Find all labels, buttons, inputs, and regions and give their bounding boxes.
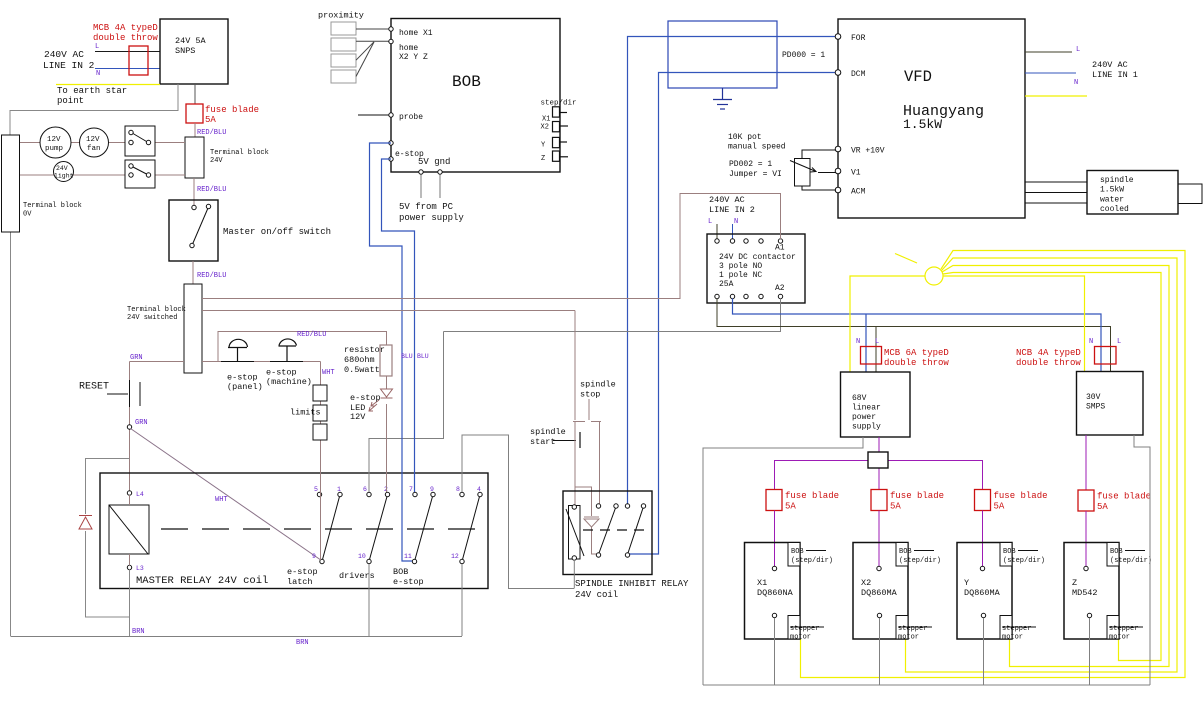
wire 24V switched to spindle stop [202,310,575,312]
wire terminal block 24V to master switch [193,178,195,207]
svg-text:5A: 5A [1097,502,1108,512]
dashed relay link line [161,528,475,530]
svg-text:Jumper = VI: Jumper = VI [729,170,782,179]
svg-text:1 pole NC: 1 pole NC [719,271,762,280]
pin home X1 [389,27,433,38]
limit switch 2 [313,405,327,421]
fuse blade 5A (X2) [871,490,944,512]
svg-text:N: N [96,70,100,78]
svg-text:7: 7 [409,486,413,493]
svg-text:1.5kW: 1.5kW [1100,186,1124,195]
wire VFD to spindle V [1025,192,1087,194]
svg-text:VR +10V: VR +10V [851,147,885,156]
svg-text:pump: pump [45,145,63,153]
svg-text:RED/BLU: RED/BLU [197,186,226,194]
contact arm (inhibit 1) [599,508,616,553]
svg-text:L: L [708,218,712,226]
pin 4 [477,486,482,497]
svg-text:fuse blade: fuse blade [205,105,259,115]
switch RESET pushbutton [107,362,140,408]
svg-text:spindle: spindle [1100,176,1134,185]
svg-text:L4: L4 [136,491,144,498]
load 24V light [54,162,74,182]
terminal block 24V switched [127,284,202,373]
svg-text:5A: 5A [785,502,796,512]
wire N line-in-2 [95,68,160,70]
limit switch 1 [313,385,327,401]
svg-text:WHT: WHT [215,496,228,504]
wire BOB e-stop2 (blue) to relay pin 7 [382,159,415,492]
svg-text:SNPS: SNPS [175,46,195,56]
label NCB 4A typeD double throw [1016,348,1081,368]
driver X2 DQ860MA [853,543,941,642]
svg-text:(step/dir): (step/dir) [1003,557,1045,565]
svg-text:(machine): (machine) [266,377,312,387]
wire stop button to inhibit relay pin [599,422,601,504]
breaker MCB 6A (red box) [861,347,882,365]
pin ACM [835,187,865,196]
svg-text:L: L [875,338,879,346]
svg-text:BRN: BRN [132,628,145,636]
wire resistor to LED [386,376,388,389]
driver Z MD542 [1064,543,1152,642]
svg-text:motor: motor [790,634,811,642]
wire pin8 to spindle inhibit coil [462,435,574,589]
svg-text:RED/BLU: RED/BLU [197,129,226,137]
spindle shaft stub [1178,184,1202,204]
svg-text:SPINDLE INHIBIT RELAY: SPINDLE INHIBIT RELAY [575,579,689,589]
wire stop button to inhibit coil [574,422,576,505]
svg-text:Master on/off switch: Master on/off switch [223,227,331,237]
potentiometer 10K [790,150,836,190]
svg-text:0.5watt: 0.5watt [344,365,380,375]
label 240V AC LINE IN 2 [43,49,95,71]
svg-text:A1: A1 [775,244,785,253]
inhibit relay top pins [596,504,645,508]
label PD002 = 1 Jumper = VI [729,160,782,179]
board BOB (breakout board) [391,19,560,173]
svg-text:power: power [852,413,876,422]
svg-text:9: 9 [430,486,434,493]
pin L3 [127,565,144,572]
svg-text:12V: 12V [350,412,366,422]
pin e-stop 1 [389,141,424,159]
svg-text:fuse blade: fuse blade [994,491,1048,501]
contact arm 9-1 [323,497,340,560]
svg-text:10K pot: 10K pot [728,133,762,142]
svg-text:1.5kW: 1.5kW [903,117,942,132]
svg-text:BOB: BOB [393,567,408,577]
motor spindle 1.5kW water cooled [1087,171,1178,215]
wire L4 to coil [129,495,131,505]
contactor 24V DC (box) [707,234,805,303]
fuse blade 5A (Z) [1078,490,1151,512]
label To earth star point [57,86,127,106]
svg-text:X2 Y Z: X2 Y Z [399,53,428,62]
wire 5V stub [420,175,422,199]
coil pins [572,505,576,509]
wire X1 driver 0V return [774,618,776,685]
svg-text:12V: 12V [47,136,61,144]
svg-text:240V AC: 240V AC [1092,60,1128,70]
svg-text:e-stop: e-stop [287,567,318,577]
svg-text:BOB: BOB [1003,548,1016,556]
svg-text:680ohm: 680ohm [344,355,375,365]
svg-text:5A: 5A [890,502,901,512]
svg-text:Y: Y [964,578,969,588]
svg-text:24V DC contactor: 24V DC contactor [719,253,796,262]
svg-text:proximity: proximity [318,11,364,21]
svg-text:Z: Z [1072,578,1077,588]
wire L3 to BRN bus [129,570,131,637]
wire purple distribution bus [775,435,1087,490]
svg-text:stepper: stepper [1002,625,1031,633]
svg-text:e-stop: e-stop [350,393,381,403]
svg-text:L: L [1076,46,1080,54]
wire SNPS 0V to left rail [10,84,178,135]
earth ray (detached) [895,254,917,264]
svg-text:NCB 4A typeD: NCB 4A typeD [1016,348,1081,358]
svg-text:probe: probe [399,113,423,122]
pin V1 [835,168,861,177]
label SPINDLE INHIBIT RELAY 24V coil [575,579,689,600]
diode D1 (flyback) [79,516,92,530]
earth wire to 68V supply (yellow) [850,276,925,372]
svg-text:PD000 = 1: PD000 = 1 [782,51,825,60]
pin gnd [438,170,442,174]
svg-text:24V: 24V [210,157,223,165]
pin 6 [363,486,371,497]
load 12V fan [80,128,109,157]
svg-text:RED/BLU: RED/BLU [297,331,326,339]
pin home X2 Y Z [389,39,428,62]
coil K2 [566,506,584,560]
wire VFD to spindle W [1025,202,1087,204]
earth wire to X1 stepper (yellow) [801,251,1186,678]
svg-text:A2: A2 [775,284,785,293]
pin L4 [127,491,144,498]
svg-text:X1: X1 [542,116,550,124]
earth wire to Z stepper (yellow) [943,273,1161,661]
proximity sensor 2 [331,38,356,51]
diode D2 (flyback) [584,517,599,527]
svg-text:stop: stop [580,390,600,400]
svg-text:cooled: cooled [1100,205,1129,214]
switch S2 (light) [125,160,155,188]
pin 1 [337,486,342,497]
switch S1 (pump/fan) [125,126,155,156]
contact arm (inhibit 2) [628,508,643,553]
svg-text:manual speed: manual speed [728,143,786,152]
wire 0V bus to 30V SMPS [1134,435,1150,685]
svg-text:e-stop: e-stop [393,577,424,587]
pin FOR [835,34,865,43]
svg-text:stepper: stepper [1109,625,1138,633]
proximity sensor 3 [331,54,356,67]
svg-text:24V coil: 24V coil [575,590,618,600]
wire N stub to contactor [732,224,734,239]
wire VFD FOR to spindle inhibit relay [628,37,837,505]
label 5V from PC power supply [399,202,464,223]
svg-text:Z: Z [541,155,545,163]
svg-text:5A: 5A [205,115,216,125]
svg-text:e-stop: e-stop [227,373,258,383]
contactor bottom pins [715,294,783,298]
wire prox1 to home X1 [356,28,389,30]
svg-text:double throw: double throw [1016,358,1081,368]
svg-text:linear: linear [852,404,881,413]
svg-text:N: N [856,338,860,346]
wire GRN to reset [130,361,185,363]
svg-text:6: 6 [363,486,367,493]
svg-text:fuse blade: fuse blade [785,491,839,501]
svg-text:N: N [1089,338,1093,346]
svg-text:L: L [95,43,99,51]
wire SNPS 24V output [194,84,196,104]
svg-text:DQ860NA: DQ860NA [757,588,794,598]
wire prox4 to home X2YZ [356,42,374,77]
wire fuse Z to driver (purple) [1085,511,1087,566]
proximity sensor 1 [331,22,356,35]
svg-text:spindle: spindle [530,427,566,437]
svg-text:3 pole NO: 3 pole NO [719,262,762,271]
svg-text:RESET: RESET [79,382,109,393]
svg-text:motor: motor [1002,634,1023,642]
svg-text:30V: 30V [1086,393,1101,402]
svg-text:GRN: GRN [130,354,143,362]
svg-text:DQ860MA: DQ860MA [861,588,898,598]
VFD Huangyang 1.5kW (box) [838,19,1025,218]
wire fuse Y to driver (purple) [982,511,984,567]
svg-text:BLU: BLU [417,353,429,360]
svg-text:10: 10 [358,553,366,560]
svg-text:240V AC: 240V AC [709,195,745,205]
inhibit relay bottom pins [596,553,629,557]
pin 9 (top) [430,486,435,497]
svg-text:(step/dir): (step/dir) [899,557,941,565]
svg-text:(panel): (panel) [227,382,263,392]
pin 8 [456,486,464,497]
svg-text:Terminal block: Terminal block [23,202,82,210]
pin 9 (bottom, e-stop latch) [312,553,324,564]
wire pin6 to contactor A2 line [369,332,444,493]
wire Z driver 0V return [1089,618,1091,685]
port Y step/dir [541,137,567,149]
terminal block 24V [185,137,269,178]
wire VFD L out [1025,51,1072,53]
node GRN junction [127,419,147,429]
svg-text:V1: V1 [851,169,861,178]
svg-text:double throw: double throw [884,358,949,368]
svg-text:11: 11 [404,553,412,560]
wire pin2 from LED chain [386,404,388,492]
svg-text:light: light [54,173,74,180]
relay MASTER RELAY 24V coil (box) [100,473,488,589]
svg-text:25A: 25A [719,280,734,289]
svg-text:home: home [399,44,418,53]
svg-text:X1: X1 [757,578,767,588]
svg-text:DQ860MA: DQ860MA [964,588,1001,598]
wire gnd stub [439,175,441,199]
wire WHT diagonal to e-stop latch [131,429,322,561]
svg-text:fuse blade: fuse blade [890,491,944,501]
resistor 680ohm [344,345,392,376]
wire reset to relay coil L4 [129,407,131,491]
driver X1 DQ860NA [745,543,834,642]
relay SPINDLE INHIBIT (box) [563,491,652,575]
wire BRN 0V bus [11,636,463,638]
earth wire to 30V SMPS (yellow) [943,276,1085,372]
pin e-stop 2 [389,157,393,161]
LED e-stop 12V [350,389,393,422]
svg-text:5: 5 [314,486,318,493]
svg-text:LINE IN 2: LINE IN 2 [709,205,755,215]
ground symbol [713,88,732,109]
e-stop (machine) mushroom button [266,339,312,387]
svg-text:(step/dir): (step/dir) [791,557,833,565]
wire L line-in-2 [95,51,160,53]
svg-text:start: start [530,437,556,447]
fuse blade 5A (24V) [186,104,259,125]
svg-text:68V: 68V [852,394,867,403]
pushbutton spindle stop [573,380,616,422]
svg-text:DCM: DCM [851,70,866,79]
wire 0V row to pump/fan [20,142,131,144]
svg-text:supply: supply [852,423,881,432]
pin probe [389,113,423,122]
wire RED/BLU tap to resistor [218,332,387,362]
svg-text:To earth star: To earth star [57,86,127,96]
driver Y DQ860MA [957,543,1045,642]
svg-text:X2: X2 [541,124,549,132]
svg-text:X2: X2 [861,578,871,588]
wire limits chain [320,362,322,561]
wire VFD to spindle U [1025,181,1087,183]
label BOB e-stop [393,567,424,587]
svg-text:LINE IN 1: LINE IN 1 [1092,70,1138,80]
svg-text:WHT: WHT [322,369,335,377]
terminal block 0V [2,135,82,232]
svg-text:BRN: BRN [296,639,309,647]
wire coil to L3 [129,554,131,566]
svg-text:ACM: ACM [851,188,866,197]
contact arm 12-4 [463,497,480,560]
svg-text:FOR: FOR [851,34,866,43]
svg-text:Terminal block: Terminal block [127,306,186,314]
svg-text:5V from PC: 5V from PC [399,202,454,212]
wire VFD DCM to spindle inhibit relay [630,73,837,555]
svg-text:MD542: MD542 [1072,588,1098,598]
svg-text:24V: 24V [56,165,68,172]
svg-text:N: N [734,218,738,226]
wire VFD earth (yellow) [1025,95,1087,97]
label MCB 6A typeD double throw [884,348,949,368]
switch Master on/off [169,200,331,261]
svg-text:point: point [57,96,84,106]
wire A1 from terminal block switched [202,194,781,299]
wire earth (yellow) to star point [56,84,160,86]
svg-text:e-stop: e-stop [266,368,297,378]
wire left 0V rail [10,232,12,636]
pin 2 [384,486,390,497]
label e-stop latch [287,567,318,587]
contact arm 10-2 [370,497,388,560]
svg-text:N: N [1074,79,1078,87]
wire pin10 to BRN bus [368,564,370,636]
pushbutton spindle start [530,427,580,448]
wire fuse to terminal block 24V [194,123,196,137]
svg-text:home X1: home X1 [399,29,433,38]
svg-text:stepper: stepper [898,625,927,633]
port X2 step/dir [541,122,569,132]
svg-text:MCB 6A typeD: MCB 6A typeD [884,348,949,358]
svg-text:power supply: power supply [399,213,464,223]
dashed link (inhibit relay) [583,529,646,531]
wire contactor N out (blue) to MCB/NCB [733,299,1102,372]
pin 10 [358,553,371,564]
svg-text:L: L [1117,338,1121,346]
svg-text:Terminal block: Terminal block [210,149,269,157]
svg-text:water: water [1100,196,1124,205]
wire switch1 to terminal block 24V [149,142,186,144]
wire master switch to terminal block switched [192,261,194,284]
svg-text:BLU: BLU [401,353,413,360]
svg-text:0V: 0V [23,211,32,219]
label 240V AC LINE IN 2 (contactor) [709,195,755,215]
svg-text:MCB 4A typeD: MCB 4A typeD [93,23,158,33]
junction box [868,452,888,468]
svg-text:latch: latch [287,577,313,587]
label 240V AC LINE IN 1 [1092,60,1138,80]
wire inhibit coil bottom to master relay pin 8 [573,560,575,589]
pin DCM [835,70,865,79]
wire driver 0V bus [703,684,1150,686]
svg-text:L3: L3 [136,565,144,572]
svg-text:8: 8 [456,486,460,493]
svg-text:motor: motor [898,634,919,642]
pin 5 [314,486,322,497]
svg-text:stepper: stepper [790,625,819,633]
wire BOB e-stop1 (blue) to relay pin 11 [370,143,413,561]
power supply 30V SMPS [1077,372,1144,436]
wire Y driver 0V return [983,618,985,685]
earth star point circle [925,267,943,285]
wire spindle stop feed (down) [574,311,576,421]
label MCB 4A typeD double throw [93,23,158,43]
wire X2 driver 0V return [879,618,881,685]
pin VR +10V [835,146,885,155]
svg-text:RED/BLU: RED/BLU [197,272,226,280]
e-stop (panel) mushroom button [221,339,263,392]
limit switch 3 [313,424,327,440]
wire 0V row to light [20,174,131,176]
wire e-stop chain baseline [202,361,321,363]
pin 5V [419,170,423,174]
svg-text:5V gnd: 5V gnd [418,157,450,167]
svg-text:BOB: BOB [899,548,912,556]
wire probe stub [358,114,389,116]
pin 12 [451,553,464,564]
svg-text:PD002 = 1: PD002 = 1 [729,160,772,169]
breaker MCB 4A (red box) [129,46,148,75]
pin 7 [409,486,417,497]
svg-text:GRN: GRN [135,419,148,427]
fuse blade 5A (X1) [766,490,839,512]
label 10K pot manual speed [728,133,786,152]
svg-text:1: 1 [337,486,341,493]
wire prox3 to home X2YZ [356,42,374,60]
svg-text:spindle: spindle [580,380,616,390]
